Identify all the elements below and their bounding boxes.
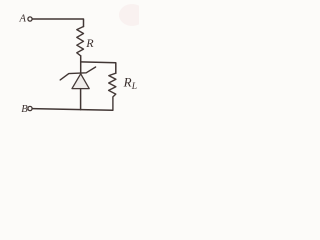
terminal B bbox=[28, 106, 32, 110]
svg-text:B: B bbox=[21, 104, 28, 115]
svg-text:A: A bbox=[19, 14, 27, 25]
resistor R bbox=[77, 27, 84, 56]
svg-text:L: L bbox=[131, 82, 137, 92]
zener diode cathode bar bbox=[60, 67, 95, 80]
terminal A bbox=[28, 17, 32, 21]
wire bottom (B to RL bottom) bbox=[32, 109, 112, 111]
wire top (A to corner, down to R) bbox=[32, 19, 83, 27]
resistor RL bbox=[109, 73, 116, 110]
svg-text:R: R bbox=[123, 74, 132, 89]
wire (junction to RL top corner) bbox=[81, 62, 116, 73]
background bbox=[0, 0, 139, 128]
svg-text:R: R bbox=[85, 36, 94, 50]
zener diode anode triangle bbox=[72, 74, 89, 89]
wire (zener anode to bottom wire) bbox=[80, 89, 82, 110]
wire (R bottom to zener cathode) bbox=[80, 56, 82, 73]
